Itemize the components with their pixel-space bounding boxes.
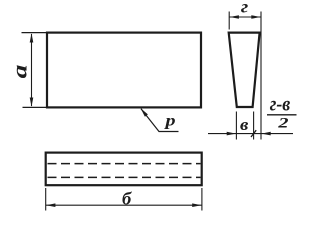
bottom view rectangle bbox=[46, 153, 202, 186]
fraction bar bbox=[267, 114, 297, 116]
extension line b right bbox=[201, 188, 203, 211]
extension line top-left bbox=[22, 32, 48, 34]
dimension line b bbox=[46, 204, 202, 206]
extension line v left bbox=[235, 112, 237, 140]
extension line v right bbox=[253, 112, 255, 140]
tick at v right bbox=[251, 130, 256, 137]
extension line bottom-left bbox=[23, 106, 48, 108]
extension line b left bbox=[45, 188, 47, 211]
extension line g right long bbox=[260, 12, 262, 140]
svg-text:в: в bbox=[240, 115, 248, 134]
svg-text:2: 2 bbox=[277, 114, 288, 131]
arrowhead b left bbox=[46, 203, 55, 207]
dimension line a bbox=[31, 34, 33, 106]
arrowhead g-v/2 bbox=[261, 132, 270, 136]
svg-text:р: р bbox=[163, 111, 175, 129]
svg-text:б: б bbox=[122, 189, 132, 209]
arrowhead b right bbox=[192, 203, 201, 207]
arrowhead v left bbox=[227, 132, 236, 136]
hidden dashed line upper bbox=[48, 163, 201, 165]
svg-text:г: г bbox=[241, 0, 248, 17]
leader line for p bbox=[141, 109, 179, 132]
dimension line g bbox=[229, 16, 261, 18]
svg-text:а: а bbox=[9, 65, 32, 79]
side view trapezoid of wedge bbox=[229, 33, 260, 107]
dimension line v and g-v/2 bbox=[208, 133, 293, 135]
front view rectangle of wedge bbox=[47, 33, 201, 108]
arrowhead g left bbox=[230, 15, 239, 19]
svg-text:г-в: г-в bbox=[270, 93, 291, 116]
arrowhead a top bbox=[30, 33, 34, 42]
hidden dashed line lower bbox=[48, 176, 201, 178]
arrowhead a bottom bbox=[30, 98, 34, 107]
leader arrowhead p bbox=[141, 108, 148, 117]
arrowhead g right bbox=[251, 15, 260, 19]
extension line g left bbox=[228, 12, 230, 30]
